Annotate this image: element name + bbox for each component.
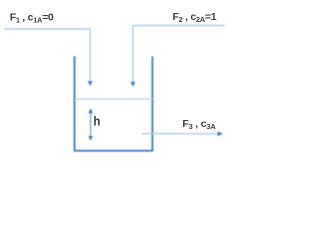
svg-text:F1 , c1A=0: F1 , c1A=0 xyxy=(10,11,54,24)
F2 feed arrowhead xyxy=(130,82,135,87)
wire F1 feed line xyxy=(5,29,91,81)
h measure arrow stem xyxy=(90,113,92,137)
liquid surface line xyxy=(75,98,153,100)
tank vessel xyxy=(75,56,153,150)
F1 feed arrowhead xyxy=(88,81,93,86)
h measure top arrowhead xyxy=(88,108,93,113)
svg-text:h: h xyxy=(93,114,100,129)
svg-text:F3 , c3A: F3 , c3A xyxy=(182,118,216,131)
wire F3 outlet line xyxy=(142,133,218,135)
wire F2 feed line xyxy=(133,26,225,82)
h measure bottom arrowhead xyxy=(88,136,93,141)
F3 outlet arrowhead xyxy=(218,131,223,136)
svg-text:F2 , c2A=1: F2 , c2A=1 xyxy=(173,11,217,24)
